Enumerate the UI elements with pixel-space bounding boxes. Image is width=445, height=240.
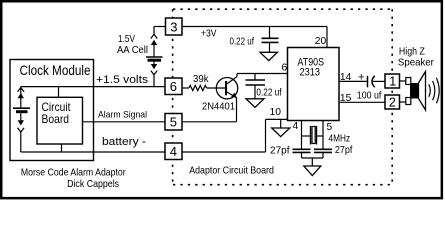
pin 4 stub bbox=[301, 121, 303, 150]
svg-text:6: 6 bbox=[282, 63, 288, 74]
svg-text:2: 2 bbox=[389, 96, 396, 110]
ground under pin10 bbox=[280, 119, 282, 128]
capacitor C3 27pf left bbox=[293, 148, 311, 150]
terminal box 6 bbox=[165, 78, 182, 95]
ground under C1 bbox=[260, 52, 278, 60]
transistor Q1 2N4401 bbox=[216, 78, 237, 99]
svg-text:14: 14 bbox=[340, 72, 352, 83]
capacitor C1 0.22uf on +3V bbox=[262, 27, 279, 53]
svg-text:27pf: 27pf bbox=[335, 145, 353, 156]
wire box3 left bbox=[154, 26, 166, 28]
pin 5 stub bbox=[322, 121, 324, 150]
battery AA cell 1.5V bbox=[146, 27, 163, 87]
svg-text:High Z: High Z bbox=[399, 47, 425, 58]
svg-text:battery -: battery - bbox=[102, 136, 146, 148]
terminal box 1 bbox=[385, 74, 400, 88]
svg-text:27pf: 27pf bbox=[270, 146, 290, 157]
pin 15 wire bbox=[339, 101, 385, 103]
speaker SP1 bbox=[400, 80, 407, 82]
wire box5 to emitter bbox=[182, 121, 237, 123]
svg-text:10: 10 bbox=[270, 107, 282, 118]
wire collector to pin6 bbox=[237, 73, 288, 75]
terminal box 4 bbox=[165, 143, 182, 160]
pin 20 stub bbox=[326, 27, 328, 48]
resistor R1 39k bbox=[182, 87, 189, 89]
svg-text:20: 20 bbox=[315, 36, 327, 47]
svg-text:Alarm Signal: Alarm Signal bbox=[98, 110, 147, 120]
svg-text:2313: 2313 bbox=[300, 67, 321, 79]
pin 10 wire bbox=[266, 118, 288, 120]
svg-text:1.5V: 1.5V bbox=[118, 34, 135, 45]
adaptor circuit board dashed outline bbox=[173, 9, 393, 185]
wire crystal ground rail bbox=[302, 157, 324, 159]
pin 14 wire bbox=[339, 80, 368, 82]
wire alarm signal bbox=[83, 121, 166, 123]
svg-text:100 uf: 100 uf bbox=[357, 91, 382, 102]
wire +1.5 volts rail bbox=[21, 86, 165, 88]
svg-text:39k: 39k bbox=[193, 74, 209, 85]
svg-text:4: 4 bbox=[170, 144, 177, 159]
svg-text:6: 6 bbox=[170, 79, 177, 94]
terminal box 5 bbox=[165, 114, 182, 131]
svg-text:Board: Board bbox=[42, 113, 70, 126]
svg-text:4MHz: 4MHz bbox=[329, 134, 351, 145]
op IC U1 AT90S2313 bbox=[288, 48, 340, 121]
svg-text:4: 4 bbox=[293, 121, 299, 132]
svg-text:+3V: +3V bbox=[201, 29, 217, 40]
svg-text:Adaptor Circuit Board: Adaptor Circuit Board bbox=[189, 165, 274, 176]
svg-text:+1.5 volts: +1.5 volts bbox=[96, 74, 148, 86]
crystal Y1 4MHz bbox=[302, 135, 311, 137]
svg-text:15: 15 bbox=[340, 93, 352, 104]
terminal box 2 bbox=[385, 95, 400, 109]
svg-text:AA Cell: AA Cell bbox=[117, 45, 148, 56]
svg-text:5: 5 bbox=[327, 122, 333, 133]
svg-text:1: 1 bbox=[389, 75, 396, 89]
svg-text:Morse Code Alarm Adaptor: Morse Code Alarm Adaptor bbox=[21, 167, 126, 178]
capacitor C4 27pf right bbox=[314, 148, 332, 150]
svg-text:+: + bbox=[358, 71, 364, 83]
svg-text:0.22 uf: 0.22 uf bbox=[230, 36, 255, 47]
svg-text:0.22 uf: 0.22 uf bbox=[256, 87, 281, 98]
svg-text:Speaker: Speaker bbox=[398, 58, 435, 69]
circuit board box bbox=[58, 87, 60, 98]
clock module box bbox=[10, 60, 94, 161]
svg-text:Dick Cappels: Dick Cappels bbox=[67, 179, 119, 190]
svg-text:3: 3 bbox=[170, 19, 177, 34]
battery B1 clock module cell bbox=[13, 87, 30, 152]
wire pin10 down to battery minus bbox=[265, 119, 267, 152]
wire +3V bbox=[182, 26, 327, 28]
wire battery minus rail bbox=[21, 151, 165, 153]
ground under C2 bbox=[246, 99, 264, 108]
capacitor C2 0.22uf on pin6 bbox=[246, 74, 266, 99]
ground under crystal bbox=[304, 166, 321, 176]
terminal box 3 bbox=[166, 18, 183, 35]
svg-text:Clock Module: Clock Module bbox=[20, 63, 91, 78]
svg-text:2N4401: 2N4401 bbox=[202, 102, 235, 113]
wire box4 to junction bbox=[182, 151, 266, 153]
svg-text:5: 5 bbox=[170, 115, 177, 130]
